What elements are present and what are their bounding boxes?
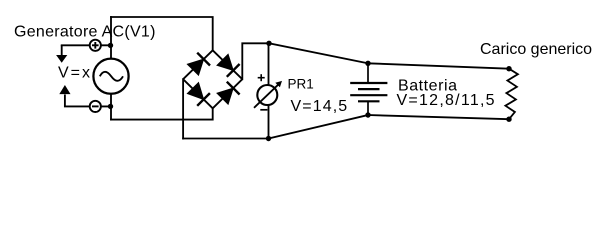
wire bottom slope battery to load: [368, 115, 509, 119]
junction dot battery top: [365, 61, 370, 66]
svg-text:PR1: PR1: [288, 77, 314, 92]
diode D4 bridge bottom-right: [213, 79, 243, 108]
junction dot load top: [506, 66, 511, 71]
junction dot meter top: [266, 41, 271, 46]
wire bottom slope to battery: [269, 115, 369, 139]
junction dot meter bottom: [266, 136, 271, 141]
terminal plus symbol: [90, 40, 101, 51]
wire bridge right corner riser: [242, 43, 269, 79]
wire top slope to battery: [269, 43, 368, 63]
meter plus mark: [258, 74, 265, 81]
voltage annotation arrow down: [56, 45, 67, 63]
svg-text:V=14,5: V=14,5: [291, 98, 349, 115]
meter minus mark: [260, 109, 267, 111]
diode D2 bridge top-right: [213, 50, 243, 79]
svg-text:Generatore AC(V1): Generatore AC(V1): [14, 24, 156, 41]
wire bridge left corner to bottom rail: [182, 79, 184, 138]
junction dot battery bottom: [365, 112, 370, 117]
resistor load: [505, 69, 518, 120]
svg-text:Carico generico: Carico generico: [480, 41, 592, 58]
AC source V1: [93, 59, 128, 94]
voltage annotation arrow up: [59, 85, 70, 106]
wire plus annotation branch: [62, 44, 111, 46]
junction dot generator plus: [108, 43, 113, 48]
meter PR1: [254, 81, 282, 108]
wire minus annotation branch: [65, 105, 111, 107]
wire generator vertical: [110, 17, 112, 120]
junction dot generator minus: [108, 104, 113, 109]
svg-text:V=x: V=x: [58, 65, 92, 82]
svg-text:V=12,8/11,5: V=12,8/11,5: [397, 92, 496, 109]
wire bottom rail: [183, 138, 268, 140]
wire meter vertical: [268, 43, 270, 138]
battery: [350, 63, 387, 115]
diode D3 bridge bottom-left: [183, 79, 213, 108]
terminal minus symbol: [90, 101, 101, 112]
wire generator return to bridge bottom: [111, 108, 213, 119]
junction dot load bottom: [506, 117, 511, 122]
diode D1 bridge top-left: [183, 50, 213, 79]
wire top slope battery to load: [368, 63, 509, 68]
wire top rail from generator to bridge top: [111, 17, 213, 50]
